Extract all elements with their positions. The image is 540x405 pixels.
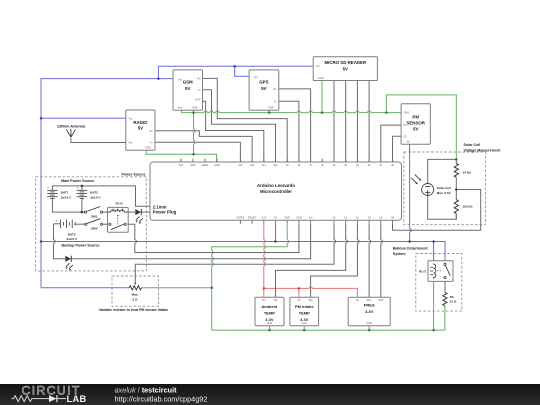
svg-text:100 kΩ: 100 kΩ: [463, 204, 474, 208]
wire +5V branch to SD reader Vcc: [158, 66, 313, 78]
Arduino bottom pin stubs: [239, 220, 241, 224]
wire SW2 to RLY2 switch: [103, 223, 109, 225]
junction dots red net: [263, 287, 266, 290]
wire RLY1 switch to R2: [444, 279, 446, 293]
wire BAT3 left terminal: [54, 223, 61, 225]
svg-text:3x3.6 V: 3x3.6 V: [67, 237, 77, 241]
junction dots grey net: [81, 185, 84, 188]
svg-text:GND: GND: [267, 322, 273, 325]
svg-text:Max: 0.5V: Max: 0.5V: [437, 191, 451, 195]
wire RLY1 coil return: [433, 279, 435, 330]
svg-text:Solar Cell: Solar Cell: [437, 186, 451, 190]
svg-text:BAT1: BAT1: [61, 191, 69, 195]
svg-text:2 Ω: 2 Ω: [133, 297, 139, 301]
svg-text:RST: RST: [196, 99, 201, 102]
svg-text:http://circuitlab.com/cpp4g92: http://circuitlab.com/cpp4g92: [115, 395, 208, 404]
resistor 100k: [454, 200, 458, 214]
svg-text:RESET: RESET: [248, 216, 257, 219]
svg-text:R2: R2: [450, 295, 454, 299]
svg-text:10 Ω: 10 Ω: [450, 300, 457, 304]
svg-text:Power Source: Power Source: [122, 172, 146, 176]
svg-text:Arduino Leonardo: Arduino Leonardo: [257, 183, 295, 188]
wire RADIO Tx to Arduino d13: [155, 142, 240, 162]
svg-text:3x3.6 V: 3x3.6 V: [90, 195, 100, 199]
svg-text:SCL: SCL: [179, 164, 184, 167]
wire PM intake DQ to Arduino A2: [311, 224, 358, 297]
svg-text:GND: GND: [318, 77, 324, 80]
wire GSM GND drop: [193, 110, 195, 112]
wire SD data 1 to Arduino d5: [333, 81, 335, 163]
balloon detachment system dashed enclosure: [416, 254, 462, 312]
svg-text:RLY2: RLY2: [115, 201, 123, 205]
wire diode to Arduino power plug: [141, 211, 150, 213]
wire 3.3V drop to PM intake Vin: [298, 288, 300, 297]
svg-text:RLY1: RLY1: [419, 270, 427, 274]
wire GSM GND column down: [193, 113, 195, 155]
wire Arduino A0 to variable resistor wiper: [135, 224, 334, 283]
svg-text:3x3.6 V: 3x3.6 V: [61, 195, 71, 199]
svg-text:GND: GND: [192, 107, 198, 110]
svg-text:3.3V: 3.3V: [300, 317, 309, 322]
svg-text:System: System: [393, 252, 406, 256]
wire GND bus lower (RADIO GND to Arduino GND): [146, 150, 217, 162]
wire solar divider mid tap: [455, 177, 457, 199]
wire main battery negative to SW1: [52, 198, 84, 212]
wire PRES GND stub: [368, 326, 370, 330]
svg-text:5V: 5V: [343, 67, 348, 72]
svg-text:SDL: SDL: [367, 299, 372, 302]
svg-text:Vin: Vin: [407, 141, 411, 144]
svg-text:5V: 5V: [138, 126, 143, 131]
svg-text:Ambient: Ambient: [261, 304, 278, 309]
battery BAT2: [77, 189, 88, 191]
wire BAT2 positive drop: [81, 186, 83, 190]
svg-text:Vin: Vin: [262, 299, 266, 302]
svg-text:Variable resistor to heat PM s: Variable resistor to heat PM sensor inta…: [99, 308, 168, 312]
svg-text:DQ: DQ: [309, 299, 313, 302]
svg-text:10 kΩ: 10 kΩ: [463, 170, 472, 174]
svg-text:GND: GND: [296, 216, 302, 219]
svg-text:5V: 5V: [274, 216, 277, 219]
wire SD data 3 to Arduino d3: [356, 81, 358, 163]
module PM intake temp sensor: [290, 297, 319, 325]
wire main battery positive to power plug: [52, 186, 150, 206]
svg-text:Key: Key: [178, 107, 183, 110]
svg-text:3.3V: 3.3V: [365, 309, 374, 314]
solar cell voltage measurement dashed enclosure: [404, 152, 486, 225]
wire +5V to RADIO Vcc: [41, 117, 126, 119]
svg-text:5V: 5V: [261, 86, 266, 91]
svg-text:Microcontroller: Microcontroller: [260, 189, 292, 194]
wire +5V vertical bus left: [41, 79, 173, 288]
wire +5V branch to GPS Vcc: [235, 66, 249, 76]
svg-text:DQ: DQ: [274, 299, 278, 302]
junction dots blue net: [157, 77, 160, 80]
relay RLY2: [108, 207, 129, 232]
wire PM sensor P2 to Arduino d0: [393, 136, 402, 162]
svg-text:GND: GND: [404, 112, 410, 115]
svg-text:d11: d11: [262, 164, 267, 167]
footer bar: [0, 384, 540, 405]
wire PM sensor Vin drop: [409, 144, 411, 241]
svg-text:MICRO SD READER: MICRO SD READER: [324, 60, 367, 65]
wire Arduino GND2 to RLY2 switch: [126, 224, 299, 253]
resistor 10k: [454, 164, 458, 178]
wire solar cell loop top: [428, 159, 457, 183]
module pressure sensor PRES: [348, 297, 390, 325]
wire SD reader GND drop: [321, 81, 323, 113]
diode main power LED: [135, 209, 141, 215]
wire SD data 4 to Arduino d2: [368, 81, 370, 163]
svg-text:PM: PM: [412, 115, 419, 120]
wire PM sensor P1 to Arduino d1: [381, 125, 401, 162]
wire 3.3V rail to PRES Vin: [264, 288, 358, 297]
module MICRO SD READER: [313, 57, 377, 81]
svg-text:Ant: Ant: [129, 142, 133, 145]
wire hops: [409, 229, 411, 232]
module RADIO: [126, 110, 155, 150]
svg-text:Balloon Detachment: Balloon Detachment: [393, 247, 429, 251]
svg-text:Max:: Max:: [132, 293, 139, 297]
module PM SENSOR: [401, 104, 430, 144]
variable resistor dashed enclosure: [112, 276, 159, 306]
wire GPS Tx to Arduino d8: [279, 101, 299, 162]
wire GSM RST to Arduino d11: [203, 101, 264, 162]
wire Arduino bottom GND to ground net: [212, 224, 288, 330]
svg-text:LAB: LAB: [67, 394, 87, 404]
wire RADIO Rx to Arduino d12: [155, 131, 252, 162]
wire RLY1 coil supply drop: [433, 242, 435, 264]
svg-text:GND: GND: [366, 322, 372, 325]
module GSM: [173, 70, 203, 110]
wire ambient temp GND stub: [269, 326, 271, 330]
wire Arduino A3 to PRES SDL: [368, 224, 370, 297]
wire GND branch to solar divider top: [386, 95, 456, 159]
svg-text:3.3V: 3.3V: [261, 216, 266, 219]
wire GSM Rx to Arduino d9: [203, 78, 288, 162]
svg-text:GSM: GSM: [183, 80, 193, 85]
wire solar cell loop bottom: [428, 196, 457, 220]
svg-text:PRES: PRES: [364, 303, 375, 308]
svg-text:SDP: SDP: [378, 299, 383, 302]
module ambient temp sensor: [255, 297, 284, 325]
switch SW2: [85, 223, 87, 225]
wire RLY2 coil to diode: [128, 211, 135, 213]
diode backup power LED: [65, 256, 71, 262]
logo resistor squiggle: [12, 396, 43, 402]
svg-text:d13: d13: [238, 164, 243, 167]
svg-text:Vcc: Vcc: [316, 65, 321, 68]
wire PM intake temp GND stub: [303, 326, 305, 330]
module GPS: [249, 70, 279, 110]
svg-text:SDA: SDA: [190, 164, 195, 167]
resistor R2: [443, 292, 447, 305]
svg-text:TEMP: TEMP: [299, 310, 310, 315]
svg-text:GPS: GPS: [259, 80, 268, 85]
wire ambient temp DQ to Arduino A1: [276, 224, 346, 297]
svg-text:AREF: AREF: [202, 164, 209, 167]
wire SW1 to RLY2 coil: [103, 211, 108, 213]
svg-text:Vin: Vin: [309, 216, 313, 219]
wire SD data 2 to Arduino d4: [345, 81, 347, 163]
svg-text:SENSOR: SENSOR: [406, 121, 425, 126]
wire Arduino A4 to PRES SDP: [380, 224, 382, 297]
wire backup battery / Vin line: [54, 224, 66, 259]
svg-text:GND: GND: [268, 107, 274, 110]
svg-text:RADIO: RADIO: [133, 120, 148, 125]
svg-text:d12: d12: [250, 164, 255, 167]
svg-text:Main Power Source: Main Power Source: [61, 179, 94, 183]
wire BAT3 right terminal to SW2: [75, 223, 84, 225]
wire GSM Tx to Arduino d10: [203, 90, 276, 162]
svg-text:TEMP: TEMP: [264, 310, 275, 315]
relay RLY1: [428, 261, 453, 282]
svg-text:GND: GND: [145, 147, 151, 150]
wire ground bus bottom: [212, 306, 445, 330]
wire Arduino 3.3V pin to ambient temp Vin: [263, 224, 265, 297]
svg-text:BAT3: BAT3: [68, 232, 76, 236]
svg-text:+: +: [47, 185, 49, 189]
wire GND bus upper (GSM Key to PM sensor GND): [181, 110, 401, 112]
svg-text:GND: GND: [214, 164, 220, 167]
svg-text:Vin: Vin: [356, 299, 360, 302]
switch SW1: [84, 211, 86, 213]
svg-text:130mm Antenna: 130mm Antenna: [57, 124, 86, 128]
junction dots green net: [192, 111, 195, 114]
wire GPS GND drop: [268, 110, 270, 112]
svg-text:axeluk / testcircuit: axeluk / testcircuit: [115, 386, 178, 395]
svg-text:Solar Cell: Solar Cell: [464, 143, 481, 147]
svg-text:PM Intake: PM Intake: [295, 304, 314, 309]
svg-text:d10: d10: [273, 164, 278, 167]
svg-text:GND: GND: [301, 322, 307, 325]
wire BAT2 negative drop: [81, 198, 83, 212]
variable resistor heater: [129, 286, 141, 290]
logo diode symbol: [49, 395, 57, 402]
solar cell source: [422, 184, 434, 196]
svg-text:BAT2: BAT2: [90, 191, 98, 195]
svg-text:Vin: Vin: [297, 299, 301, 302]
wire variable resistor to ground column: [141, 287, 211, 289]
wire Arduino A5 to solar divider tap: [393, 190, 481, 231]
antenna 130mm: [66, 129, 75, 138]
svg-text:+: +: [77, 185, 79, 189]
svg-text:+: +: [56, 218, 58, 222]
wire +5V to variable resistor: [41, 287, 129, 289]
power source dashed enclosure: [36, 177, 147, 271]
battery BAT1: [47, 189, 58, 191]
svg-text:5V: 5V: [413, 127, 418, 132]
svg-text:3.3V: 3.3V: [265, 317, 274, 322]
svg-text:Power Plug: Power Plug: [153, 209, 177, 214]
svg-text:5V: 5V: [185, 86, 190, 91]
wire GPS Rx to Arduino d7: [279, 89, 311, 162]
wire antenna to RADIO: [71, 138, 126, 143]
svg-text:Voltage Measurement: Voltage Measurement: [464, 148, 502, 152]
svg-text:SW1: SW1: [91, 214, 98, 218]
battery BAT3: [60, 220, 62, 228]
module Arduino Leonardo: [150, 162, 402, 220]
svg-text:IOREF: IOREF: [237, 216, 245, 219]
svg-text:SW2: SW2: [91, 227, 98, 231]
wire Arduino 5V pin drop: [275, 224, 277, 242]
Arduino top pin stubs: [180, 159, 182, 163]
wire +5V horizontal bus bottom: [41, 242, 445, 263]
svg-text:Backup Power Source: Backup Power Source: [62, 243, 100, 247]
svg-text:GND: GND: [284, 216, 290, 219]
